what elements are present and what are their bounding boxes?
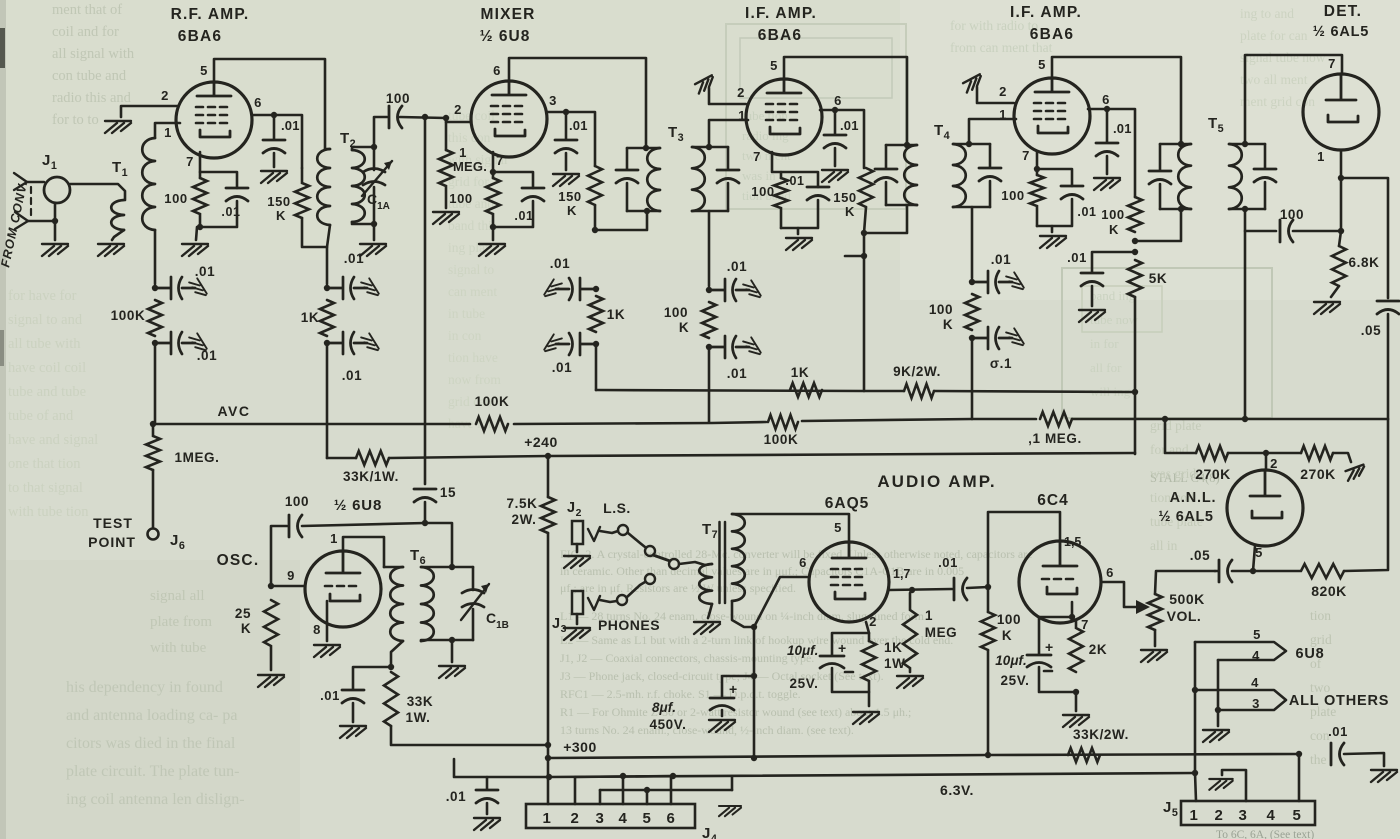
svg-text:6: 6: [834, 93, 842, 108]
wire V7 cathode to 10uF: [832, 633, 869, 655]
svg-text:TEST: TEST: [93, 515, 133, 531]
wire screen cap to ground: [273, 153, 276, 167]
ground at J4 right: [719, 806, 741, 816]
junction injection node: [422, 520, 428, 526]
wire T7 primary top to V7 plate: [732, 514, 849, 542]
svg-text:K: K: [1002, 628, 1012, 643]
svg-text:‚1 MEG.: ‚1 MEG.: [1028, 431, 1082, 446]
capacitor 100 pF interstage coupling: [389, 106, 402, 128]
wire V4 screen bypass stem: [1106, 109, 1109, 142]
junction V2 feed at T3 tap: [592, 227, 598, 233]
svg-text:13 turns No. 24 enam., cl: 13 turns No. 24 enam., close-wound, ½-in…: [560, 723, 854, 737]
junction V8 cathode node: [1069, 614, 1075, 620]
svg-text:½ 6U8: ½ 6U8: [480, 28, 531, 45]
capacitor .01 IF1 grid bypass upper chassis return: [743, 280, 761, 301]
wire ANL right to ground: [1333, 453, 1351, 462]
switch pivot terminal: [669, 559, 679, 569]
wire T3 secondary bottom rail: [692, 210, 728, 213]
wire J2 sleeve to ground: [576, 544, 579, 552]
svg-text:R.F. AMP.: R.F. AMP.: [171, 6, 250, 23]
jack J1 input connector: [44, 177, 70, 203]
wire osc bypass ground lead: [352, 703, 355, 722]
svg-text:AVC: AVC: [217, 403, 250, 419]
svg-text:signal to and: signal to and: [8, 312, 83, 328]
wire jumper B end riser: [731, 776, 734, 790]
wire T4 secondary cap stem top: [989, 144, 992, 167]
ground below 6.8K: [1314, 302, 1340, 314]
svg-text:signal tube now: signal tube now: [1240, 50, 1326, 65]
svg-text:6: 6: [493, 63, 501, 78]
svg-text:150: 150: [267, 194, 291, 209]
wire 6.8K to ground: [1331, 286, 1339, 297]
capacitor .05 ANL coupling: [1219, 560, 1232, 582]
svg-text:K: K: [679, 320, 689, 335]
wire cathode return to ground: [196, 227, 197, 240]
svg-text:+240: +240: [524, 434, 558, 450]
svg-text:10μf.: 10μf.: [995, 653, 1026, 668]
capacitor 10uF V8 cathode bypass: [1027, 655, 1051, 667]
capacitor .01 mixer feed bypass lower chassis return: [544, 334, 562, 355]
svg-text:150: 150: [833, 190, 857, 205]
inductor T6 tank winding: [421, 567, 434, 641]
svg-text:100K: 100K: [475, 394, 510, 409]
resistor 33K/2W B+ feed: [1068, 748, 1100, 762]
svg-text:100: 100: [664, 305, 688, 320]
junction V7 grid node: [909, 587, 915, 593]
wire oscillator injection vertical: [424, 117, 427, 484]
ground below V2 cathode: [479, 244, 505, 256]
svg-text:6: 6: [667, 810, 676, 827]
wire V2 pin3 screen lead: [547, 112, 595, 166]
wire volume top to .05: [1155, 571, 1215, 594]
svg-text:6AQ5: 6AQ5: [825, 495, 870, 512]
junction V2 cathode node: [490, 169, 496, 175]
junction T5 secondary top: [1242, 141, 1248, 147]
wire J1 tip contact: [27, 181, 44, 184]
svg-text:tion have: tion have: [448, 350, 498, 365]
wire J4 pin2 riser: [574, 777, 577, 804]
ground below V3 screen bypass: [822, 170, 848, 182]
wire J5 pin5 riser: [1298, 754, 1301, 801]
capacitor .01 audio coupling: [954, 578, 967, 600]
svg-text:6: 6: [799, 555, 807, 570]
svg-text:in for: in for: [1090, 336, 1119, 351]
svg-text:.01: .01: [1077, 205, 1096, 219]
svg-text:½ 6AL5: ½ 6AL5: [1158, 509, 1213, 525]
wire T3 secondary bottom to AGC column: [708, 211, 711, 286]
wire J1 sleeve contact: [28, 220, 55, 223]
svg-text:1: 1: [330, 531, 338, 546]
svg-text:1W.: 1W.: [405, 710, 430, 725]
wire V8 cathode bottom rail: [1039, 667, 1076, 692]
wire RF feed 33K/1W line: [327, 457, 356, 460]
wire V3 pin1 to T3 secondary: [709, 120, 748, 147]
junction ANL divider takeoff: [1162, 416, 1168, 422]
svg-text:270K: 270K: [1300, 466, 1335, 482]
inductor T5 secondary winding: [1229, 144, 1242, 209]
ground below heater lead B: [1203, 730, 1229, 742]
resistor 1K RF plate decoupling: [320, 300, 334, 336]
svg-text:all for: all for: [1090, 360, 1122, 375]
junction mixer feed upper: [593, 286, 599, 292]
svg-text:.01: .01: [552, 360, 573, 375]
junction T4 primary tap: [861, 230, 867, 236]
wire J4 pin1 riser: [547, 758, 550, 804]
junction jumper A at pin4: [620, 773, 626, 779]
wire V5 cathode pin1 down: [1340, 150, 1343, 231]
ground below T6 tank: [439, 666, 465, 678]
svg-text:4: 4: [1267, 807, 1276, 824]
potentiometer 500K volume control: [1148, 594, 1162, 630]
arrow wiper of volume control: [1136, 600, 1150, 614]
capacitor .01 RF plate feed bypass lower: [327, 332, 367, 354]
inductor T7 secondary (voice coil) winding: [699, 564, 712, 604]
arrow of variable capacitor C1A: [362, 161, 392, 196]
svg-text:DET.: DET.: [1324, 3, 1362, 20]
svg-text:.01: .01: [281, 118, 300, 133]
wire +240 to 7.5K: [547, 456, 550, 497]
wire 8uF bottom ground lead: [721, 710, 724, 716]
wire T3 primary cap stem top: [626, 148, 629, 169]
wire phones terminal to switch bottom: [627, 582, 645, 597]
svg-text:con tube and: con tube and: [52, 68, 127, 84]
ground below T1 primary: [98, 244, 124, 256]
wire J4 pin4 riser: [622, 776, 625, 804]
arrow of variable capacitor C1B: [461, 584, 489, 620]
wire T4 primary top rail: [886, 144, 917, 147]
ground below J2: [564, 556, 590, 568]
capacitor 0.1 IF2 grid bypass lower: [972, 327, 1012, 349]
svg-text:have coil coil: have coil coil: [8, 360, 86, 376]
wire T4 secondary bottom to IF2 grid column: [971, 207, 974, 278]
wire T3 primary top rail: [627, 147, 660, 150]
jack J3 phones output: [572, 591, 583, 614]
svg-text:6.3V.: 6.3V.: [940, 782, 974, 798]
capacitor 15 pF osc injection: [414, 489, 436, 502]
wire V4 plate pin5 top bus to T5: [1052, 57, 1181, 144]
svg-text:2: 2: [454, 102, 462, 117]
resistor 33K/1W RF feed: [356, 451, 389, 465]
svg-text:two all ment: two all ment: [1240, 72, 1308, 87]
junction V1 cathode return: [197, 224, 203, 230]
wire heater bus left cap stem: [486, 777, 489, 789]
svg-text:signal all: signal all: [150, 588, 205, 604]
junction ANL plate node: [1263, 450, 1269, 456]
resistor 100 ohm V3 cathode: [774, 178, 788, 228]
svg-text:now from: now from: [448, 372, 501, 387]
svg-text:.01: .01: [840, 118, 859, 133]
svg-text:3: 3: [1239, 807, 1248, 824]
svg-text:.01: .01: [785, 174, 804, 188]
ground below T2 tank: [360, 244, 386, 256]
wire J1 to T1 primary: [70, 184, 125, 200]
wire 1MEG to J6: [152, 470, 155, 528]
resistor 820K ANL: [1253, 564, 1344, 578]
junction jumper A at pin6: [670, 773, 676, 779]
wire V3 cathode pin7 down: [772, 152, 781, 178]
wire screen bus right: [934, 391, 1135, 392]
junction heater bus end: [1192, 770, 1198, 776]
wire T6 left top rail: [384, 566, 403, 569]
svg-text:1: 1: [164, 125, 172, 140]
wire C1A stem bottom: [373, 187, 376, 222]
junction T2 secondary top: [371, 144, 377, 150]
wire T7 secondary bottom to ground: [708, 604, 712, 618]
svg-text:7.5K: 7.5K: [507, 496, 538, 511]
svg-text:tube of and: tube of and: [8, 408, 74, 424]
wire T4 primary tap to screen column: [864, 205, 907, 233]
wire T6 tank top rail: [421, 566, 473, 569]
ground below osc bypass: [340, 726, 366, 738]
wire V1 cathode pin7 to node: [199, 152, 202, 178]
svg-text:band this: band this: [448, 218, 497, 233]
svg-text:.01: .01: [727, 259, 748, 274]
connector J4 terminal strip: [526, 804, 695, 828]
wire V3 bypass bottom join: [781, 200, 818, 228]
wire ANL plate pin2: [1265, 453, 1268, 470]
svg-text:ment that of: ment that of: [52, 2, 122, 18]
junction ANL cathode node: [1250, 568, 1256, 574]
svg-text:4: 4: [1251, 675, 1259, 690]
wire V6 grid pin9 lead: [271, 585, 305, 588]
ground below V8 cathode: [1063, 715, 1089, 727]
svg-text:1: 1: [1317, 149, 1325, 164]
svg-text:μf.; are in μf. Resistors: μf.; are in μf. Resistors are ½ W unless…: [560, 581, 796, 595]
wire B+ node down to +300 bus: [753, 676, 756, 758]
wire T2 secondary bottom rail: [352, 222, 374, 224]
svg-text:.01: .01: [344, 251, 365, 266]
wire V2 150K to T3 tap and 1K column: [594, 205, 597, 230]
resistor 270K ANL right: [1301, 446, 1333, 460]
resistor 1 MEG mixer grid leak: [439, 150, 453, 208]
tube V4 second I.F. amplifier 6BA6: [1014, 78, 1090, 154]
wire screen bypass link: [1092, 252, 1135, 272]
wire T4 secondary cap stem bottom: [989, 181, 992, 207]
ground at V3 pin2 tilted: [694, 75, 716, 93]
svg-text:1: 1: [925, 608, 933, 623]
capacitor C1B variable osc tuning: [462, 590, 484, 608]
wire V8 cathode to 10uF: [1039, 617, 1072, 654]
bracket 6U8 heater pins: [1195, 642, 1286, 660]
minus sign of V8 10uF: [1044, 670, 1052, 673]
svg-text:con: con: [1310, 728, 1330, 743]
junction +300 at .01: [1296, 751, 1302, 757]
resistor 100 ohm V2 cathode: [486, 178, 500, 227]
svg-text:6BA6: 6BA6: [178, 28, 222, 45]
junction screen/B+ node at V7: [751, 624, 757, 630]
wire J4 pin5 riser: [646, 790, 649, 804]
wire V2 bypass bottom to rail: [493, 201, 533, 227]
capacitor T3 secondary tuning: [717, 170, 739, 183]
resistor 1 MEG V7 grid: [903, 593, 917, 672]
wire coupling cap to 6C4 plate node: [967, 587, 988, 588]
wire detector audio bus right: [802, 419, 1036, 421]
wire V4 pin6 screen lead: [1088, 109, 1135, 197]
junction mixer grid at 1MEG: [443, 115, 449, 121]
junction T5 secondary bottom: [1242, 206, 1248, 212]
wire V3 screen bypass ground lead: [834, 148, 837, 166]
svg-text:100K: 100K: [111, 308, 146, 323]
svg-text:A.N.L.: A.N.L.: [1170, 490, 1217, 506]
minus sign of V7 10uF: [845, 671, 853, 674]
svg-text:5: 5: [1255, 545, 1263, 560]
svg-text:6BA6: 6BA6: [758, 27, 802, 44]
svg-text:100: 100: [386, 91, 410, 106]
svg-text:5K: 5K: [1149, 271, 1167, 286]
resistor 1K screen bus: [790, 383, 822, 397]
wire volume bottom to ground: [1154, 630, 1157, 646]
resistor 1 MEG AVC test point: [146, 424, 160, 470]
svg-text:K: K: [276, 208, 286, 223]
inductor T4 secondary winding: [953, 144, 966, 207]
junction 33K line at 7.5K column: [545, 742, 551, 748]
svg-text:.01: .01: [1113, 121, 1132, 136]
svg-text:+: +: [838, 640, 846, 656]
svg-text:.01: .01: [446, 789, 467, 804]
svg-text:25: 25: [235, 606, 251, 621]
wire T1 primary bottom to ground: [112, 230, 124, 240]
svg-text:all signal with: all signal with: [52, 46, 135, 62]
wire screen bypass cap stem: [273, 115, 276, 139]
wire T2 bottom to ground: [373, 224, 376, 240]
wire V8 cathode ground lead: [1075, 692, 1078, 711]
tube V1 6BA6 R.F. amplifier envelope: [176, 82, 252, 158]
capacitor .01 V1 cathode bypass: [226, 188, 248, 201]
svg-text:2: 2: [1270, 456, 1278, 471]
svg-text:100: 100: [751, 184, 775, 199]
wire audio bus to ANL divider: [1072, 418, 1388, 421]
resistor 1K 1W V7 cathode: [862, 641, 876, 692]
wire T5 secondary top rail: [1229, 143, 1265, 146]
svg-text:in tube: in tube: [448, 306, 485, 321]
wire heater lead A to bus and J5: [1195, 690, 1196, 801]
wire .05 to audio bus corner: [1387, 314, 1390, 419]
svg-text:FIG. 2. A crystal-controlled: FIG. 2. A crystal-controlled 28-Mc. conv…: [560, 547, 1033, 561]
svg-text:.01: .01: [991, 252, 1012, 267]
svg-text:3: 3: [549, 93, 557, 108]
svg-text:4: 4: [1252, 648, 1260, 663]
wire divider node to T5 primary bottom: [1135, 209, 1181, 241]
wire V1 pin6 screen node: [252, 115, 302, 168]
wire V4 cathode pin7 down: [1036, 151, 1039, 175]
tube V8 6C4 first audio: [1019, 541, 1101, 623]
ground below V4 cathode: [1040, 236, 1066, 248]
contact of J2: [588, 527, 600, 541]
svg-text:K: K: [241, 621, 251, 636]
svg-text:6.8K: 6.8K: [1349, 255, 1380, 270]
svg-text:150: 150: [558, 189, 582, 204]
wire screen stub: [845, 255, 864, 258]
svg-text:8μf.: 8μf.: [652, 700, 676, 715]
svg-text:10μf.: 10μf.: [787, 643, 818, 658]
wire 6.3V heater bus: [454, 759, 1195, 777]
ground at V1 pin 2: [105, 121, 131, 133]
wire ANL divider middle: [1228, 452, 1301, 455]
svg-text:5: 5: [770, 58, 778, 73]
capacitor .01 V1 grid return bypass lower chassis return: [189, 333, 207, 354]
svg-text:25V.: 25V.: [790, 676, 819, 691]
inductor T4 primary winding: [904, 145, 917, 205]
svg-text:100: 100: [997, 612, 1021, 627]
capacitor .01 V2 screen bypass: [555, 140, 577, 153]
junction +300 at 8uF column: [751, 755, 757, 761]
svg-text:.01: .01: [938, 555, 958, 570]
svg-text:OSC.: OSC.: [217, 552, 260, 569]
svg-text:6BA6: 6BA6: [1030, 26, 1074, 43]
wire T5 primary top rail: [1160, 143, 1191, 146]
svg-text:AUDIO AMP.: AUDIO AMP.: [877, 472, 996, 491]
tube V7 6AQ5 audio output: [809, 542, 889, 622]
svg-text:ing to and: ing to and: [1240, 6, 1294, 21]
svg-text:2W.: 2W.: [511, 512, 536, 527]
svg-text:5: 5: [643, 810, 652, 827]
capacitor .05 detector RF filter: [1377, 301, 1399, 314]
svg-text:1,5: 1,5: [1064, 535, 1081, 549]
wire T3 primary cap stem bottom: [626, 183, 629, 211]
svg-text:plate for can: plate for can: [1240, 28, 1308, 43]
ground below J1: [42, 244, 68, 256]
tube V5 detector half 6AL5: [1303, 74, 1379, 150]
wire T1 secondary bottom to AVC column: [154, 230, 157, 284]
wire mixer column to 9K bus: [595, 344, 598, 390]
svg-text:all tube with: all tube with: [8, 336, 81, 352]
inductor T5 primary winding: [1178, 144, 1191, 209]
resistor 150K V3 screen: [859, 168, 873, 207]
bracket ALL OTHERS heater pins: [1195, 690, 1286, 710]
junction T5 primary top: [1178, 141, 1184, 147]
junction grid return lower (V1): [152, 340, 158, 346]
svg-text:15: 15: [440, 485, 456, 500]
switch terminal top (output selector): [645, 546, 655, 556]
resistor 1 MEG audio bus: [1040, 412, 1072, 426]
resistor 100K IF2 grid return: [965, 294, 979, 330]
svg-text:2: 2: [161, 88, 169, 103]
svg-text:to that signal: to that signal: [8, 480, 83, 496]
capacitor .01 V4 screen divider bypass: [1081, 273, 1103, 286]
ground below 25K: [258, 675, 284, 687]
resistor 100K V8 plate load: [981, 612, 995, 650]
switch blade: [653, 555, 670, 561]
jack J2 speaker output: [572, 521, 583, 544]
ground below V7 cathode: [853, 712, 879, 724]
wire detector audio bus: [153, 423, 470, 426]
wire T5 secondary top to detector plate bus: [1245, 55, 1342, 144]
resistor 6.8K detector load: [1332, 246, 1346, 286]
capacitor 10uF V7 cathode bypass: [820, 656, 844, 668]
capacitor .01 V1 grid return bypass upper: [155, 277, 195, 299]
svg-text:MEG.: MEG.: [453, 159, 487, 174]
capacitor .01 RF plate feed bypass upper: [327, 277, 367, 299]
wire LS terminal to switch top: [628, 533, 645, 547]
capacitor .01 V3 screen bypass: [824, 135, 846, 148]
svg-text:5: 5: [1253, 627, 1261, 642]
tube V9 A.N.L. half 6AL5: [1227, 470, 1303, 546]
svg-text:have and signal: have and signal: [8, 432, 98, 448]
contact of J3: [588, 596, 600, 610]
wire V2 cathode pin7 down: [492, 152, 495, 178]
connector J5 power plug: [1181, 801, 1315, 825]
svg-text:5: 5: [1293, 807, 1302, 824]
wire mixer grid leak down: [445, 122, 448, 150]
svg-text:8: 8: [313, 622, 321, 637]
svg-text:1K: 1K: [791, 365, 809, 380]
capacitor .01 IF1 grid bypass lower: [709, 336, 749, 358]
svg-text:100: 100: [449, 191, 473, 206]
svg-text:100: 100: [929, 302, 953, 317]
capacitor .01 V4 screen bypass: [1096, 143, 1118, 156]
svg-text:1K: 1K: [607, 307, 625, 322]
svg-text:coil and for: coil and for: [52, 24, 119, 40]
